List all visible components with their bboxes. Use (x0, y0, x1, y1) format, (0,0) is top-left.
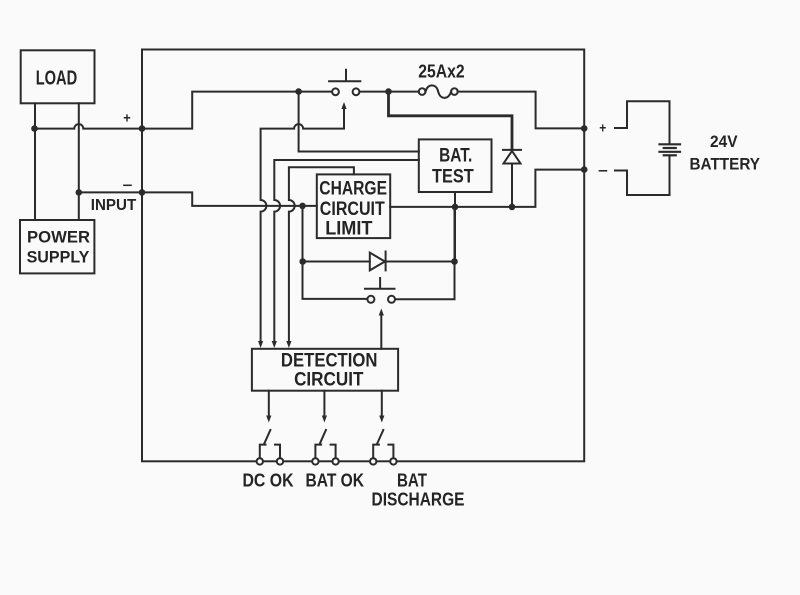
node: switch S1 left (295, 88, 302, 95)
node: - rail at charge box (299, 203, 306, 210)
node: diode D1 bottom (509, 204, 516, 211)
POWER SUPPLY box (20, 220, 94, 273)
fuse F1 25Ax2 (419, 88, 426, 95)
wire: switch arm control from detection (261, 107, 344, 342)
wire: - input rail (79, 192, 317, 206)
relay K3 bracket (373, 445, 393, 458)
node: battery - terminal (581, 166, 588, 173)
relay K2 bracket (315, 445, 335, 458)
LOAD box (21, 50, 95, 103)
wire: LOAD/PS right lead (78, 103, 80, 220)
node: discharge diode left (299, 258, 306, 265)
switch S2 (battery test switch) (367, 296, 374, 303)
svg-text:TEST: TEST (432, 167, 474, 188)
svg-text:CIRCUIT: CIRCUIT (294, 370, 364, 391)
wire: + input rail with hop over right lead (35, 92, 299, 129)
relay K1 bracket (260, 445, 280, 458)
node: - input at enclosure (139, 189, 146, 196)
svg-text:DETECTION: DETECTION (281, 351, 378, 372)
svg-text:DISCHARGE: DISCHARGE (372, 490, 465, 510)
wire: negative rail charge box to battery - terminal (390, 170, 584, 207)
svg-text:−: − (123, 177, 133, 193)
wire: line B BAT TEST to detection (274, 160, 419, 342)
svg-text:DC OK: DC OK (243, 471, 294, 491)
wire: BAT TEST bottom lead (454, 192, 456, 262)
node: - input at LOAD lead (76, 189, 83, 196)
svg-text:24V: 24V (710, 133, 738, 151)
svg-text:BAT: BAT (397, 471, 427, 491)
DETECTION CIRCUIT box (252, 349, 398, 391)
switch S1 contacts (332, 88, 339, 95)
wire: S2 control from detection (380, 313, 382, 349)
wire: line C charge-limit top to detection (289, 167, 354, 341)
svg-text:25Ax2: 25Ax2 (418, 62, 464, 82)
relay K1 lead + blade (268, 391, 270, 416)
wire: fuse bypass to diode D1 (389, 92, 513, 149)
arrowhead up at S1 (341, 102, 346, 109)
arrowhead down into detection (286, 341, 291, 348)
wire: LOAD/PS left lead (34, 103, 36, 220)
relay K2 contacts (312, 458, 318, 464)
svg-text:POWER: POWER (27, 228, 90, 246)
BAT TEST box (419, 139, 492, 192)
node: discharge diode right (451, 258, 458, 265)
junction dots (31, 88, 587, 265)
svg-text:CIRCUIT: CIRCUIT (320, 199, 385, 220)
node: + input at enclosure (139, 125, 146, 132)
CHARGE CIRCUIT LIMIT box (317, 174, 390, 238)
relay K3 contacts (370, 458, 376, 464)
battery B1 plates (660, 143, 681, 145)
relay K3 lead + blade (381, 391, 383, 416)
wire: battery - bracket (615, 156, 670, 195)
node: + input at LOAD (31, 125, 38, 132)
svg-text:SUPPLY: SUPPLY (27, 249, 90, 267)
svg-text:BAT.: BAT. (439, 146, 472, 167)
node: fuse left (385, 88, 392, 95)
svg-text:BATTERY: BATTERY (690, 156, 761, 174)
svg-text:LIMIT: LIMIT (325, 218, 373, 239)
node: BAT TEST bottom (452, 204, 459, 211)
arrowhead down into detection (258, 341, 263, 348)
relay K1 contacts (257, 458, 263, 464)
switch S1 actuator bar (329, 70, 360, 82)
node: battery + terminal (581, 125, 588, 132)
wire: fuse to battery + terminal (458, 92, 584, 129)
svg-text:−: − (598, 163, 608, 179)
svg-text:+: + (123, 110, 131, 126)
relay K2 lead + blade (323, 391, 325, 416)
diode D2 (discharge, pointing right) (370, 253, 385, 271)
svg-text:LOAD: LOAD (36, 68, 77, 90)
wire: top rail from switch to fuse (299, 91, 332, 93)
wire: discharge diode row (303, 206, 368, 299)
diode D1 (charge path, pointing up) (503, 149, 521, 151)
UPS enclosure box (142, 50, 584, 462)
wire: battery + bracket (615, 101, 670, 143)
svg-text:+: + (599, 120, 606, 136)
svg-text:CHARGE: CHARGE (319, 179, 387, 200)
wire: line A switch junction to BAT TEST (299, 92, 419, 152)
svg-text:BAT OK: BAT OK (306, 471, 365, 491)
svg-text:INPUT: INPUT (91, 197, 137, 214)
arrowhead down into detection (272, 341, 277, 348)
